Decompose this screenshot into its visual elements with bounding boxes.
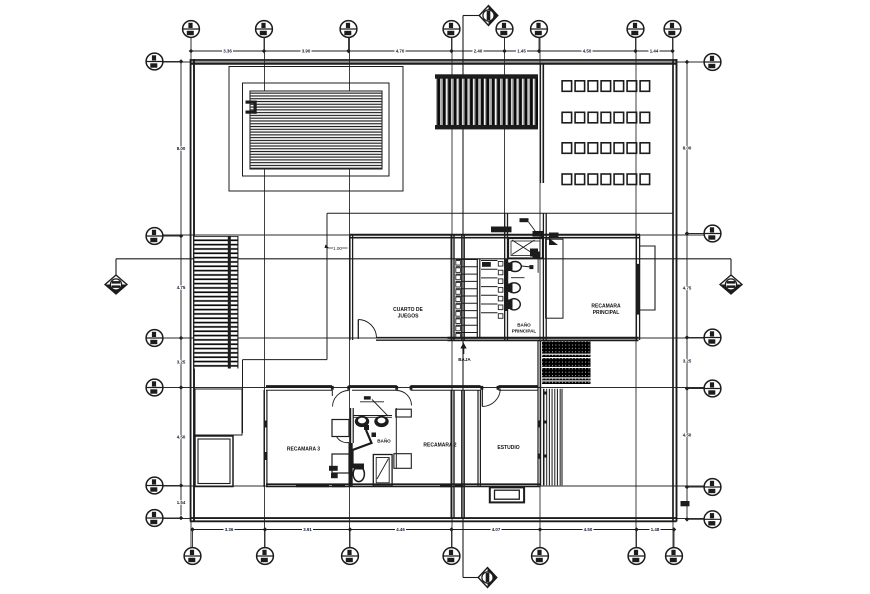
grid bubble T6 <box>531 21 548 38</box>
recamara 3 black outlet marks <box>329 466 338 471</box>
stair flight right treads <box>481 261 498 313</box>
grid bubble B7 <box>666 548 683 565</box>
svg-text:CUARTO DE: CUARTO DE <box>393 307 423 313</box>
right exterior wall <box>672 59 674 522</box>
horizontal grid lines <box>163 62 704 519</box>
svg-text:4.50: 4.50 <box>177 435 186 440</box>
svg-text:RECAMARA: RECAMARA <box>591 304 621 310</box>
bath black drain mark <box>372 433 377 438</box>
wall between deck and roof squares <box>540 64 542 183</box>
svg-text:4.70: 4.70 <box>396 49 405 54</box>
bath mirror mark <box>364 396 371 399</box>
rooms bottom wall <box>266 483 541 485</box>
bottom wall black segments <box>296 484 329 488</box>
estudio east wall <box>537 341 539 486</box>
bedrooms top wall <box>266 385 332 388</box>
recamara 3 west wall <box>263 390 265 487</box>
planter below estudio <box>490 487 524 502</box>
grid bubble B4 <box>443 548 460 565</box>
svg-text:BAÑO: BAÑO <box>517 322 531 328</box>
estudio door leaf <box>481 389 483 407</box>
baja arrow <box>463 347 465 354</box>
stairs bottom wall <box>448 337 639 339</box>
grid bubble T4 <box>443 21 460 38</box>
bottom dimension line <box>193 529 675 531</box>
stairwell west wall <box>450 235 452 340</box>
cuarto de juegos left wall <box>349 235 351 341</box>
svg-text:ESTUDIO: ESTUDIO <box>497 445 519 451</box>
recamara principal east wall poche <box>636 264 640 315</box>
grid bubble L2 <box>146 228 163 245</box>
bath leader diagonal <box>529 222 539 236</box>
bath principal east wall <box>542 213 544 340</box>
grid bubble L6 <box>146 510 163 527</box>
svg-text:3.25: 3.25 <box>683 359 692 364</box>
svg-text:4.50: 4.50 <box>583 49 592 54</box>
svg-text:8.00: 8.00 <box>683 146 692 151</box>
estudio door arc <box>482 389 500 407</box>
bath plumbing wall black <box>349 443 353 487</box>
left exterior wall <box>190 59 192 522</box>
bath shelf line <box>511 277 525 279</box>
grid bubble L1 <box>146 53 163 70</box>
grid bubble T2 <box>256 21 273 38</box>
svg-text:BAÑO: BAÑO <box>377 438 391 444</box>
section marker left <box>105 275 127 294</box>
grid bubble R1 <box>704 54 721 71</box>
recamara 3 east wall <box>350 408 352 487</box>
section marker connector left <box>115 259 117 275</box>
bath west wall poche <box>505 259 509 311</box>
section marker connector bottom <box>463 577 478 579</box>
bath sink 1 <box>355 416 369 427</box>
bath shower corner blob <box>535 232 545 239</box>
svg-text:1.45: 1.45 <box>517 49 526 54</box>
terrace boundary vertical <box>326 213 328 359</box>
bath vanity black counter <box>491 227 512 233</box>
grid bubble B6 <box>628 548 645 565</box>
section marker right <box>720 275 742 294</box>
top exterior wall <box>190 59 677 61</box>
section marker connector right <box>730 259 732 275</box>
svg-text:3.25: 3.25 <box>177 360 186 365</box>
svg-text:8.00: 8.00 <box>177 146 186 151</box>
balcony outline <box>640 246 655 310</box>
cuarto de juegos door arc <box>358 320 376 338</box>
top dimension labels <box>222 49 233 53</box>
svg-text:PRINCIPAL: PRINCIPAL <box>593 310 620 316</box>
svg-text:4.50: 4.50 <box>683 433 692 438</box>
bath vanity counter <box>353 415 392 417</box>
grid bubble T1 <box>183 21 200 38</box>
svg-text:3.91: 3.91 <box>303 527 312 532</box>
svg-text:2.40: 2.40 <box>474 49 483 54</box>
grid bubble R6 <box>704 511 721 528</box>
stair flight left treads <box>456 260 478 333</box>
right dimension line <box>686 62 688 518</box>
hatch strip dots <box>544 392 547 395</box>
bath east wall cabinet blobs <box>533 231 545 237</box>
bath shower stall <box>373 455 392 486</box>
recamara principal wardrobe <box>546 239 563 318</box>
svg-text:3.90: 3.90 <box>302 49 311 54</box>
stair right newel squares <box>498 262 503 319</box>
top bubble stems <box>191 38 673 52</box>
bottom dimension labels <box>224 527 235 531</box>
grid bubble L3 <box>146 330 163 347</box>
bottom exterior wall <box>190 517 677 519</box>
grid bubble R5 <box>704 479 721 496</box>
bath sink 2 <box>374 416 388 427</box>
vertical grid lines <box>191 38 673 548</box>
left dimension labels <box>176 146 186 150</box>
estudio west wall <box>477 390 479 486</box>
stair center rail <box>476 259 478 338</box>
grid bubble T7 <box>627 21 644 38</box>
bottom bubble stems <box>193 530 675 548</box>
cuarto de juegos bottom wall <box>376 337 452 339</box>
deck vertical hatch block <box>435 78 538 126</box>
recamara 2 closet top <box>396 409 412 417</box>
recamara 2 closet bottom <box>394 454 411 469</box>
right dimension labels <box>682 146 692 150</box>
section marker top <box>479 6 498 26</box>
corridor east wall lower <box>461 390 463 518</box>
right wall black tick <box>681 501 690 506</box>
pool hatched area <box>250 91 382 169</box>
section line vertical S1 <box>462 16 464 578</box>
stair left newel squares <box>456 261 461 339</box>
estudio east wall poche <box>538 420 541 427</box>
svg-text:1.00: 1.00 <box>333 246 342 251</box>
roof beam squares grid <box>562 81 650 185</box>
grid bubble T5 <box>496 21 513 38</box>
patio lower double rectangle <box>195 436 233 487</box>
grid bubble B2 <box>257 548 274 565</box>
bath toilet <box>353 466 364 481</box>
svg-text:1.48: 1.48 <box>651 527 660 532</box>
grid bubble R2 <box>704 225 721 242</box>
corridor west wall lower <box>450 390 452 518</box>
recamara 2 west partition <box>395 408 397 468</box>
recamara 3 west wall poche <box>264 421 268 428</box>
section line horizontal S2 <box>116 258 731 260</box>
grid bubble T3 <box>340 21 357 38</box>
svg-text:BAJA: BAJA <box>458 357 471 362</box>
estudio door jambs <box>480 386 483 390</box>
bath shower enclosure <box>509 239 543 259</box>
dimension 1.00 note <box>328 247 334 249</box>
grid bubble L5 <box>146 477 163 494</box>
svg-text:4.75: 4.75 <box>683 286 692 291</box>
door jamb marks <box>331 386 334 390</box>
section marker connector top <box>463 15 479 17</box>
grid bubble R4 <box>704 380 721 397</box>
black blobs at bath east wall <box>549 233 559 238</box>
section marker bottom <box>478 568 497 588</box>
svg-text:3.36: 3.36 <box>223 49 232 54</box>
grid bubble B3 <box>342 548 359 565</box>
recamara 3 door arc <box>331 390 333 396</box>
pool middle rectangle <box>243 83 390 176</box>
svg-text:4.07: 4.07 <box>492 527 501 532</box>
terrace boundary upper <box>327 212 673 214</box>
recamara 2 door arc <box>397 391 412 406</box>
bath toilet 3 <box>508 299 521 310</box>
left bubble stems <box>163 62 181 519</box>
bath small black box <box>520 218 529 222</box>
svg-text:PRINCIPAL: PRINCIPAL <box>512 329 537 334</box>
recamara principal east wall <box>635 235 637 341</box>
left dimension line <box>180 62 182 516</box>
stair landing black rect <box>482 262 491 267</box>
svg-text:3.36: 3.36 <box>225 527 234 532</box>
svg-text:1.54: 1.54 <box>177 500 186 505</box>
right bubble stems <box>687 62 704 519</box>
grid bubble T8 <box>664 21 681 38</box>
svg-text:4.46: 4.46 <box>396 527 405 532</box>
bath toilet 1 <box>509 262 522 272</box>
bath toilet 2 <box>508 283 521 293</box>
svg-text:4.75: 4.75 <box>177 285 186 290</box>
cuarto de juegos door leaf <box>357 320 359 339</box>
terrace boundary left vertical <box>242 360 244 433</box>
svg-text:JUEGOS: JUEGOS <box>398 314 420 320</box>
hatched slab block <box>542 342 591 385</box>
pool outer rectangle <box>229 67 403 192</box>
bath fixtures connectors <box>522 266 531 267</box>
svg-text:1.44: 1.44 <box>650 49 659 54</box>
svg-text:RECAMARA 3: RECAMARA 3 <box>287 447 320 453</box>
grid bubble B5 <box>532 548 549 565</box>
vertical hatch strip east of estudio <box>544 389 563 486</box>
grid bubble R3 <box>704 329 721 346</box>
louver hatch strip <box>194 236 239 369</box>
terrace boundary lower <box>243 359 328 361</box>
grid bubble L4 <box>146 379 163 396</box>
recamara 3 desk rects <box>332 420 349 437</box>
svg-text:4.50: 4.50 <box>584 527 593 532</box>
stair corridor east wall <box>461 235 463 340</box>
pool ladder <box>246 101 257 104</box>
bath principal west wall <box>504 213 506 340</box>
patio step rectangle <box>195 389 242 435</box>
top dimension line <box>191 50 673 52</box>
grid bubble B1 <box>184 548 201 565</box>
bath plumbing zigzag <box>353 430 372 468</box>
hall top wall y235 <box>350 234 640 236</box>
